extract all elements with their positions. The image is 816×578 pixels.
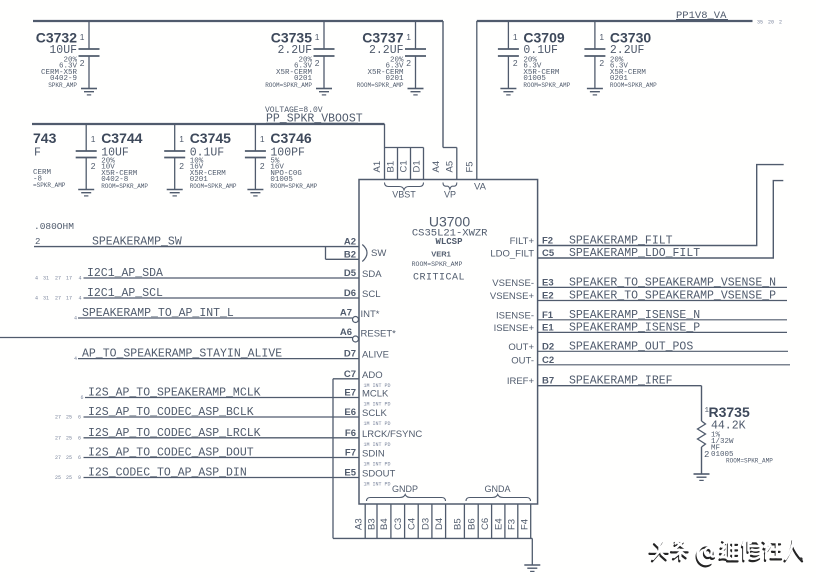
svg-text:MCLK: MCLK xyxy=(362,389,389,400)
VBST group brace xyxy=(385,183,424,200)
svg-text:2: 2 xyxy=(315,58,320,68)
svg-text:1M INT PD: 1M INT PD xyxy=(364,462,391,468)
svg-text:2: 2 xyxy=(179,161,184,171)
svg-text:B7: B7 xyxy=(542,376,554,387)
svg-text:1M INT PD: 1M INT PD xyxy=(364,442,391,448)
pins B6 C6 E4 F3 F4 (GNDA) stub boxes xyxy=(467,504,531,538)
svg-text:0.1UF: 0.1UF xyxy=(523,44,558,57)
svg-text:1M INT PD: 1M INT PD xyxy=(364,402,391,408)
svg-text:VSENSE+: VSENSE+ xyxy=(490,291,535,302)
svg-text:B5: B5 xyxy=(453,518,464,530)
svg-text:F7: F7 xyxy=(345,448,356,459)
svg-text:I2S_AP_TO_SPEAKERAMP_MCLK: I2S_AP_TO_SPEAKERAMP_MCLK xyxy=(88,387,261,400)
capacitor C3746 xyxy=(245,124,318,190)
node SPEAKERAMP_TO_AP_INT_L wire to pin A7 xyxy=(74,307,380,323)
node I2S_AP_TO_CODEC_ASP_BCLK wire to pin E6 xyxy=(55,406,391,427)
svg-text:B6: B6 xyxy=(467,518,478,530)
node I2S_AP_TO_CODEC_ASP_LRCLK wire to pin F6 xyxy=(55,427,422,448)
svg-text:10UF: 10UF xyxy=(49,44,77,57)
svg-text:OUT-: OUT- xyxy=(511,355,534,366)
svg-text:2: 2 xyxy=(80,58,85,68)
svg-text:2: 2 xyxy=(599,58,604,68)
capacitor C3743 (clipped at page edge) xyxy=(33,130,66,189)
op-amp U3700 body xyxy=(359,180,538,505)
svg-text:RESET*: RESET* xyxy=(361,329,397,340)
svg-text:VA: VA xyxy=(474,182,487,193)
svg-text:F: F xyxy=(34,147,41,160)
ground symbol of GND bus xyxy=(524,565,540,571)
svg-text:B4: B4 xyxy=(379,518,390,530)
svg-text:4: 4 xyxy=(74,316,77,322)
GNDA group brace xyxy=(466,484,531,501)
svg-text:A5: A5 xyxy=(445,161,456,173)
svg-text:C1: C1 xyxy=(399,160,410,172)
svg-text:ADO: ADO xyxy=(362,370,383,381)
svg-text:FILT+: FILT+ xyxy=(510,236,535,247)
svg-text:1: 1 xyxy=(513,32,518,42)
svg-text:SPEAKERAMP_SW: SPEAKERAMP_SW xyxy=(92,236,182,249)
svg-text:I2S_AP_TO_CODEC_ASP_BCLK: I2S_AP_TO_CODEC_ASP_BCLK xyxy=(88,406,254,419)
svg-text:D2: D2 xyxy=(542,341,554,352)
svg-text:2.2UF: 2.2UF xyxy=(369,44,404,57)
svg-text:1: 1 xyxy=(599,32,604,42)
svg-text:I2C1_AP_SCL: I2C1_AP_SCL xyxy=(87,287,163,300)
pin A4 A5 (VP) xyxy=(431,148,457,180)
svg-text:E2: E2 xyxy=(542,291,554,302)
svg-text:ROOM=SPKR_AMP: ROOM=SPKR_AMP xyxy=(101,183,148,190)
pin C7 ADO tied to ground bus xyxy=(333,369,391,539)
ground of C3709 xyxy=(500,89,516,95)
svg-text:I2S_AP_TO_CODEC_ASP_DOUT: I2S_AP_TO_CODEC_ASP_DOUT xyxy=(88,447,254,460)
svg-text:31: 31 xyxy=(43,296,49,302)
svg-text:F6: F6 xyxy=(345,428,356,439)
svg-text:AP_TO_SPEAKERAMP_STAYIN_ALIVE: AP_TO_SPEAKERAMP_STAYIN_ALIVE xyxy=(82,348,282,361)
svg-text:25: 25 xyxy=(66,475,72,481)
svg-text:17: 17 xyxy=(66,276,72,282)
pin F5 (VA) wire from PP1V8_VA xyxy=(465,21,487,193)
pin B2 stub (joined with A2 as SW) xyxy=(326,245,387,262)
svg-text:GNDA: GNDA xyxy=(484,484,510,494)
svg-text:ROOM=SPKR_AMP: ROOM=SPKR_AMP xyxy=(610,82,657,89)
svg-text:SDA: SDA xyxy=(362,269,382,280)
svg-text:SPEAKERAMP_OUT_POS: SPEAKERAMP_OUT_POS xyxy=(569,340,693,353)
svg-text:LRCK/FSYNC: LRCK/FSYNC xyxy=(362,429,422,440)
svg-text:1: 1 xyxy=(315,32,320,42)
svg-text:VSENSE-: VSENSE- xyxy=(492,278,534,289)
ground of C3745 xyxy=(167,190,183,196)
svg-text:2.2UF: 2.2UF xyxy=(610,44,645,57)
VP group brace xyxy=(443,183,457,200)
svg-text:C3744: C3744 xyxy=(101,130,142,146)
svg-text:B1: B1 xyxy=(386,161,397,173)
resistor R3735 xyxy=(698,404,774,474)
svg-text:F2: F2 xyxy=(542,236,553,247)
svg-text:IREF+: IREF+ xyxy=(507,376,535,387)
svg-text:25: 25 xyxy=(66,435,72,441)
svg-text:4: 4 xyxy=(35,296,38,302)
node SPEAKERAMP_SW wire to pin A2 xyxy=(34,236,359,249)
svg-text:SPEAKERAMP_ISENSE_N: SPEAKERAMP_ISENSE_N xyxy=(569,309,700,322)
capacitor C3745 xyxy=(164,124,237,190)
svg-text:SCL: SCL xyxy=(362,289,380,300)
svg-text:I2S_CODEC_TO_AP_ASP_DIN: I2S_CODEC_TO_AP_ASP_DIN xyxy=(88,467,247,480)
svg-text:LDO_FILT: LDO_FILT xyxy=(490,249,534,260)
svg-text:ALIVE: ALIVE xyxy=(362,350,389,361)
svg-text:.080OHM: .080OHM xyxy=(34,221,74,232)
svg-text:SPEAKER_TO_SPEAKERAMP_VSENSE_N: SPEAKER_TO_SPEAKERAMP_VSENSE_N xyxy=(569,276,776,289)
svg-text:C7: C7 xyxy=(344,369,356,380)
svg-text:27: 27 xyxy=(55,296,61,302)
svg-text:31: 31 xyxy=(43,276,49,282)
svg-text:E1: E1 xyxy=(542,322,554,333)
svg-text:B2: B2 xyxy=(344,249,356,260)
svg-text:SPEAKER_TO_SPEAKERAMP_VSENSE_P: SPEAKER_TO_SPEAKERAMP_VSENSE_P xyxy=(569,290,776,303)
svg-text:ROOM=SPKR_AMP: ROOM=SPKR_AMP xyxy=(265,82,312,89)
svg-text:2: 2 xyxy=(779,20,782,26)
capacitor C3730 xyxy=(584,21,657,89)
svg-text:ROOM=SPKR_AMP: ROOM=SPKR_AMP xyxy=(523,82,570,89)
svg-text:1: 1 xyxy=(91,134,96,144)
ground of C3744 xyxy=(78,190,94,196)
node PP_SPKR_VBOOST rail xyxy=(32,106,385,126)
svg-text:27: 27 xyxy=(55,455,61,461)
svg-text:6: 6 xyxy=(78,455,81,461)
ground of C3746 xyxy=(247,190,263,196)
node SPEAKERAMP_ISENSE_P wire from pin E1 xyxy=(494,321,787,334)
svg-text:C3745: C3745 xyxy=(190,130,231,146)
node SPEAKERAMP_ISENSE_N wire from pin F1 xyxy=(496,309,787,322)
node I2C1_AP_SCL wire to pin D6 xyxy=(35,287,380,302)
node I2S_AP_TO_CODEC_ASP_DOUT wire to pin F7 xyxy=(55,447,391,468)
svg-text:27: 27 xyxy=(55,435,61,441)
svg-text:1: 1 xyxy=(260,134,265,144)
svg-text:F1: F1 xyxy=(542,310,554,321)
svg-text:4: 4 xyxy=(74,356,77,362)
svg-text:SDOUT: SDOUT xyxy=(362,469,395,480)
svg-text:C5: C5 xyxy=(542,248,555,259)
svg-text:E6: E6 xyxy=(344,407,356,418)
svg-text:SPKR_AMP: SPKR_AMP xyxy=(48,82,77,89)
svg-text:SDIN: SDIN xyxy=(362,449,385,460)
svg-text:1M INT PD: 1M INT PD xyxy=(364,482,391,488)
svg-text:SPEAKERAMP_FILT: SPEAKERAMP_FILT xyxy=(569,235,673,248)
svg-text:SPEAKERAMP_LDO_FILT: SPEAKERAMP_LDO_FILT xyxy=(569,247,700,260)
svg-text:ISENSE-: ISENSE- xyxy=(496,310,534,321)
node PP1V8_VA rail xyxy=(477,10,782,26)
node I2C1_AP_SDA wire to pin D5 xyxy=(35,267,382,282)
ground of C3735 xyxy=(316,89,332,95)
svg-text:C3746: C3746 xyxy=(270,130,311,146)
svg-text:A1: A1 xyxy=(372,161,383,173)
svg-text:SPEAKERAMP_ISENSE_P: SPEAKERAMP_ISENSE_P xyxy=(569,321,700,334)
svg-text:SPEAKERAMP_IREF: SPEAKERAMP_IREF xyxy=(569,375,673,388)
svg-text:WLCSP: WLCSP xyxy=(435,237,463,247)
svg-text:1: 1 xyxy=(80,32,85,42)
svg-text:E3: E3 xyxy=(542,277,554,288)
svg-text:E7: E7 xyxy=(344,388,356,399)
svg-text:CRITICAL: CRITICAL xyxy=(413,273,465,284)
node I2S_AP_TO_SPEAKERAMP_MCLK wire to pin E7 xyxy=(81,387,391,408)
svg-text:I2C1_AP_SDA: I2C1_AP_SDA xyxy=(87,267,163,280)
ground of R3735 xyxy=(694,474,710,480)
svg-text:2.2UF: 2.2UF xyxy=(277,44,312,57)
svg-text:D3: D3 xyxy=(420,518,431,530)
pin A1 (VBST) with B1 C1 D1 stub boxes xyxy=(372,124,423,180)
svg-text:2: 2 xyxy=(513,58,518,68)
svg-text:4: 4 xyxy=(79,296,82,302)
svg-text:35: 35 xyxy=(757,20,763,26)
svg-text:F5: F5 xyxy=(465,161,476,172)
svg-text:A6: A6 xyxy=(340,327,352,338)
svg-text:GNDP: GNDP xyxy=(392,484,418,494)
svg-text:D7: D7 xyxy=(344,349,356,360)
svg-text:VP: VP xyxy=(444,190,456,200)
svg-text:D4: D4 xyxy=(434,518,445,530)
svg-text:D1: D1 xyxy=(412,160,423,172)
pin B5 wire to ground bus xyxy=(453,504,465,538)
svg-text:I2S_AP_TO_CODEC_ASP_LRCLK: I2S_AP_TO_CODEC_ASP_LRCLK xyxy=(88,427,261,440)
svg-text:743: 743 xyxy=(33,130,57,146)
svg-text:27: 27 xyxy=(55,415,61,421)
svg-text:SCLK: SCLK xyxy=(362,408,387,419)
capacitor C3737 xyxy=(357,21,426,89)
svg-text:2: 2 xyxy=(260,161,265,171)
svg-text:4: 4 xyxy=(35,276,38,282)
svg-text:ROOM=SPKR_AMP: ROOM=SPKR_AMP xyxy=(190,183,237,190)
node AP_TO_SPEAKERAMP_STAYIN_ALIVE wire to pin D7 xyxy=(74,348,389,363)
capacitor C3732 xyxy=(36,21,100,89)
svg-text:1: 1 xyxy=(179,134,184,144)
svg-text:D5: D5 xyxy=(344,268,357,279)
pin A3 wire to ground bus xyxy=(354,504,366,538)
svg-text:A7: A7 xyxy=(340,308,352,319)
svg-text:27: 27 xyxy=(55,276,61,282)
svg-text:ROOM=SPKR_AMP: ROOM=SPKR_AMP xyxy=(357,82,404,89)
ground of C3730 xyxy=(587,89,603,95)
svg-text:A3: A3 xyxy=(354,518,365,530)
svg-text:ISENSE+: ISENSE+ xyxy=(494,323,535,334)
svg-text:VER1: VER1 xyxy=(431,250,451,259)
svg-text:SW: SW xyxy=(371,248,386,259)
capacitor C3744 xyxy=(76,124,149,190)
svg-text:C3: C3 xyxy=(393,518,404,530)
GNDP group brace xyxy=(367,484,446,501)
svg-text:ROOM=SPKR_AMP: ROOM=SPKR_AMP xyxy=(726,458,773,465)
svg-text:ROOM=SPKR_AMP: ROOM=SPKR_AMP xyxy=(270,183,317,190)
node SPEAKERAMP_FILT wire from pin F2 (bends up) xyxy=(510,165,784,248)
svg-text:OUT+: OUT+ xyxy=(508,342,534,353)
svg-text:25: 25 xyxy=(66,415,72,421)
svg-text:9: 9 xyxy=(78,475,81,481)
svg-text:D6: D6 xyxy=(344,288,356,299)
watermark TouTiao @weixiukuangren (drawn) xyxy=(650,539,804,566)
svg-text:R3735: R3735 xyxy=(709,404,750,420)
svg-text:A4: A4 xyxy=(431,161,442,173)
node I2S_CODEC_TO_AP_ASP_DIN wire to pin E5 xyxy=(55,467,395,488)
svg-text:E5: E5 xyxy=(344,468,356,479)
node SPEAKERAMP_IREF wire from pin B7 xyxy=(507,375,702,421)
svg-text:1M INT PD: 1M INT PD xyxy=(364,421,391,427)
wire from pin C2 xyxy=(511,355,790,367)
node SPEAKER_TO_SPEAKERAMP_VSENSE_N wire from pin E3 xyxy=(492,276,787,289)
svg-text:6: 6 xyxy=(78,435,81,441)
ground of C3737 xyxy=(408,89,424,95)
svg-text:VBST: VBST xyxy=(392,190,416,200)
svg-text:25: 25 xyxy=(55,475,61,481)
svg-text:6: 6 xyxy=(81,395,84,401)
node SPEAKERAMP_OUT_POS wire from pin D2 xyxy=(508,340,788,353)
svg-text:C2: C2 xyxy=(542,355,554,366)
svg-text:INT*: INT* xyxy=(361,309,380,320)
capacitor C3735 xyxy=(265,21,334,89)
svg-text:20: 20 xyxy=(768,20,774,26)
wire ground bus under bottom pins xyxy=(333,538,532,565)
svg-text:C4: C4 xyxy=(407,518,418,530)
wire to pin A6 RESET* xyxy=(0,327,396,342)
svg-text:A2: A2 xyxy=(344,237,356,248)
svg-text:C6: C6 xyxy=(480,518,491,530)
svg-text:2: 2 xyxy=(35,237,40,247)
svg-text:2: 2 xyxy=(406,58,411,68)
node SPEAKERAMP_LDO_FILT wire from pin C5 (bends up) xyxy=(490,181,783,260)
svg-text:B3: B3 xyxy=(366,518,377,530)
svg-text:2: 2 xyxy=(91,161,96,171)
wire VP rail (top left supply) xyxy=(33,21,443,148)
svg-text:2: 2 xyxy=(704,450,709,460)
svg-text:PP1V8_VA: PP1V8_VA xyxy=(676,10,727,22)
ground of C3732 xyxy=(81,89,97,95)
svg-text:4: 4 xyxy=(79,276,82,282)
svg-text:1: 1 xyxy=(406,32,411,42)
svg-text:25: 25 xyxy=(66,455,72,461)
svg-text:=SPKR_AMP: =SPKR_AMP xyxy=(33,182,66,189)
node SPEAKER_TO_SPEAKERAMP_VSENSE_P wire from pin E2 xyxy=(490,290,787,303)
svg-text:SPEAKERAMP_TO_AP_INT_L: SPEAKERAMP_TO_AP_INT_L xyxy=(82,307,234,320)
svg-text:F3: F3 xyxy=(507,519,518,530)
svg-text:E4: E4 xyxy=(493,518,504,530)
pins B3 B4 C3 C4 D3 D4 (GNDP) stub boxes xyxy=(366,504,445,538)
svg-text:17: 17 xyxy=(66,296,72,302)
capacitor C3709 xyxy=(498,21,571,89)
inductor value note .080OHM xyxy=(34,221,74,247)
svg-text:ROOM=SPKR_AMP: ROOM=SPKR_AMP xyxy=(412,261,463,268)
svg-text:6: 6 xyxy=(78,415,81,421)
svg-text:F4: F4 xyxy=(519,519,530,530)
